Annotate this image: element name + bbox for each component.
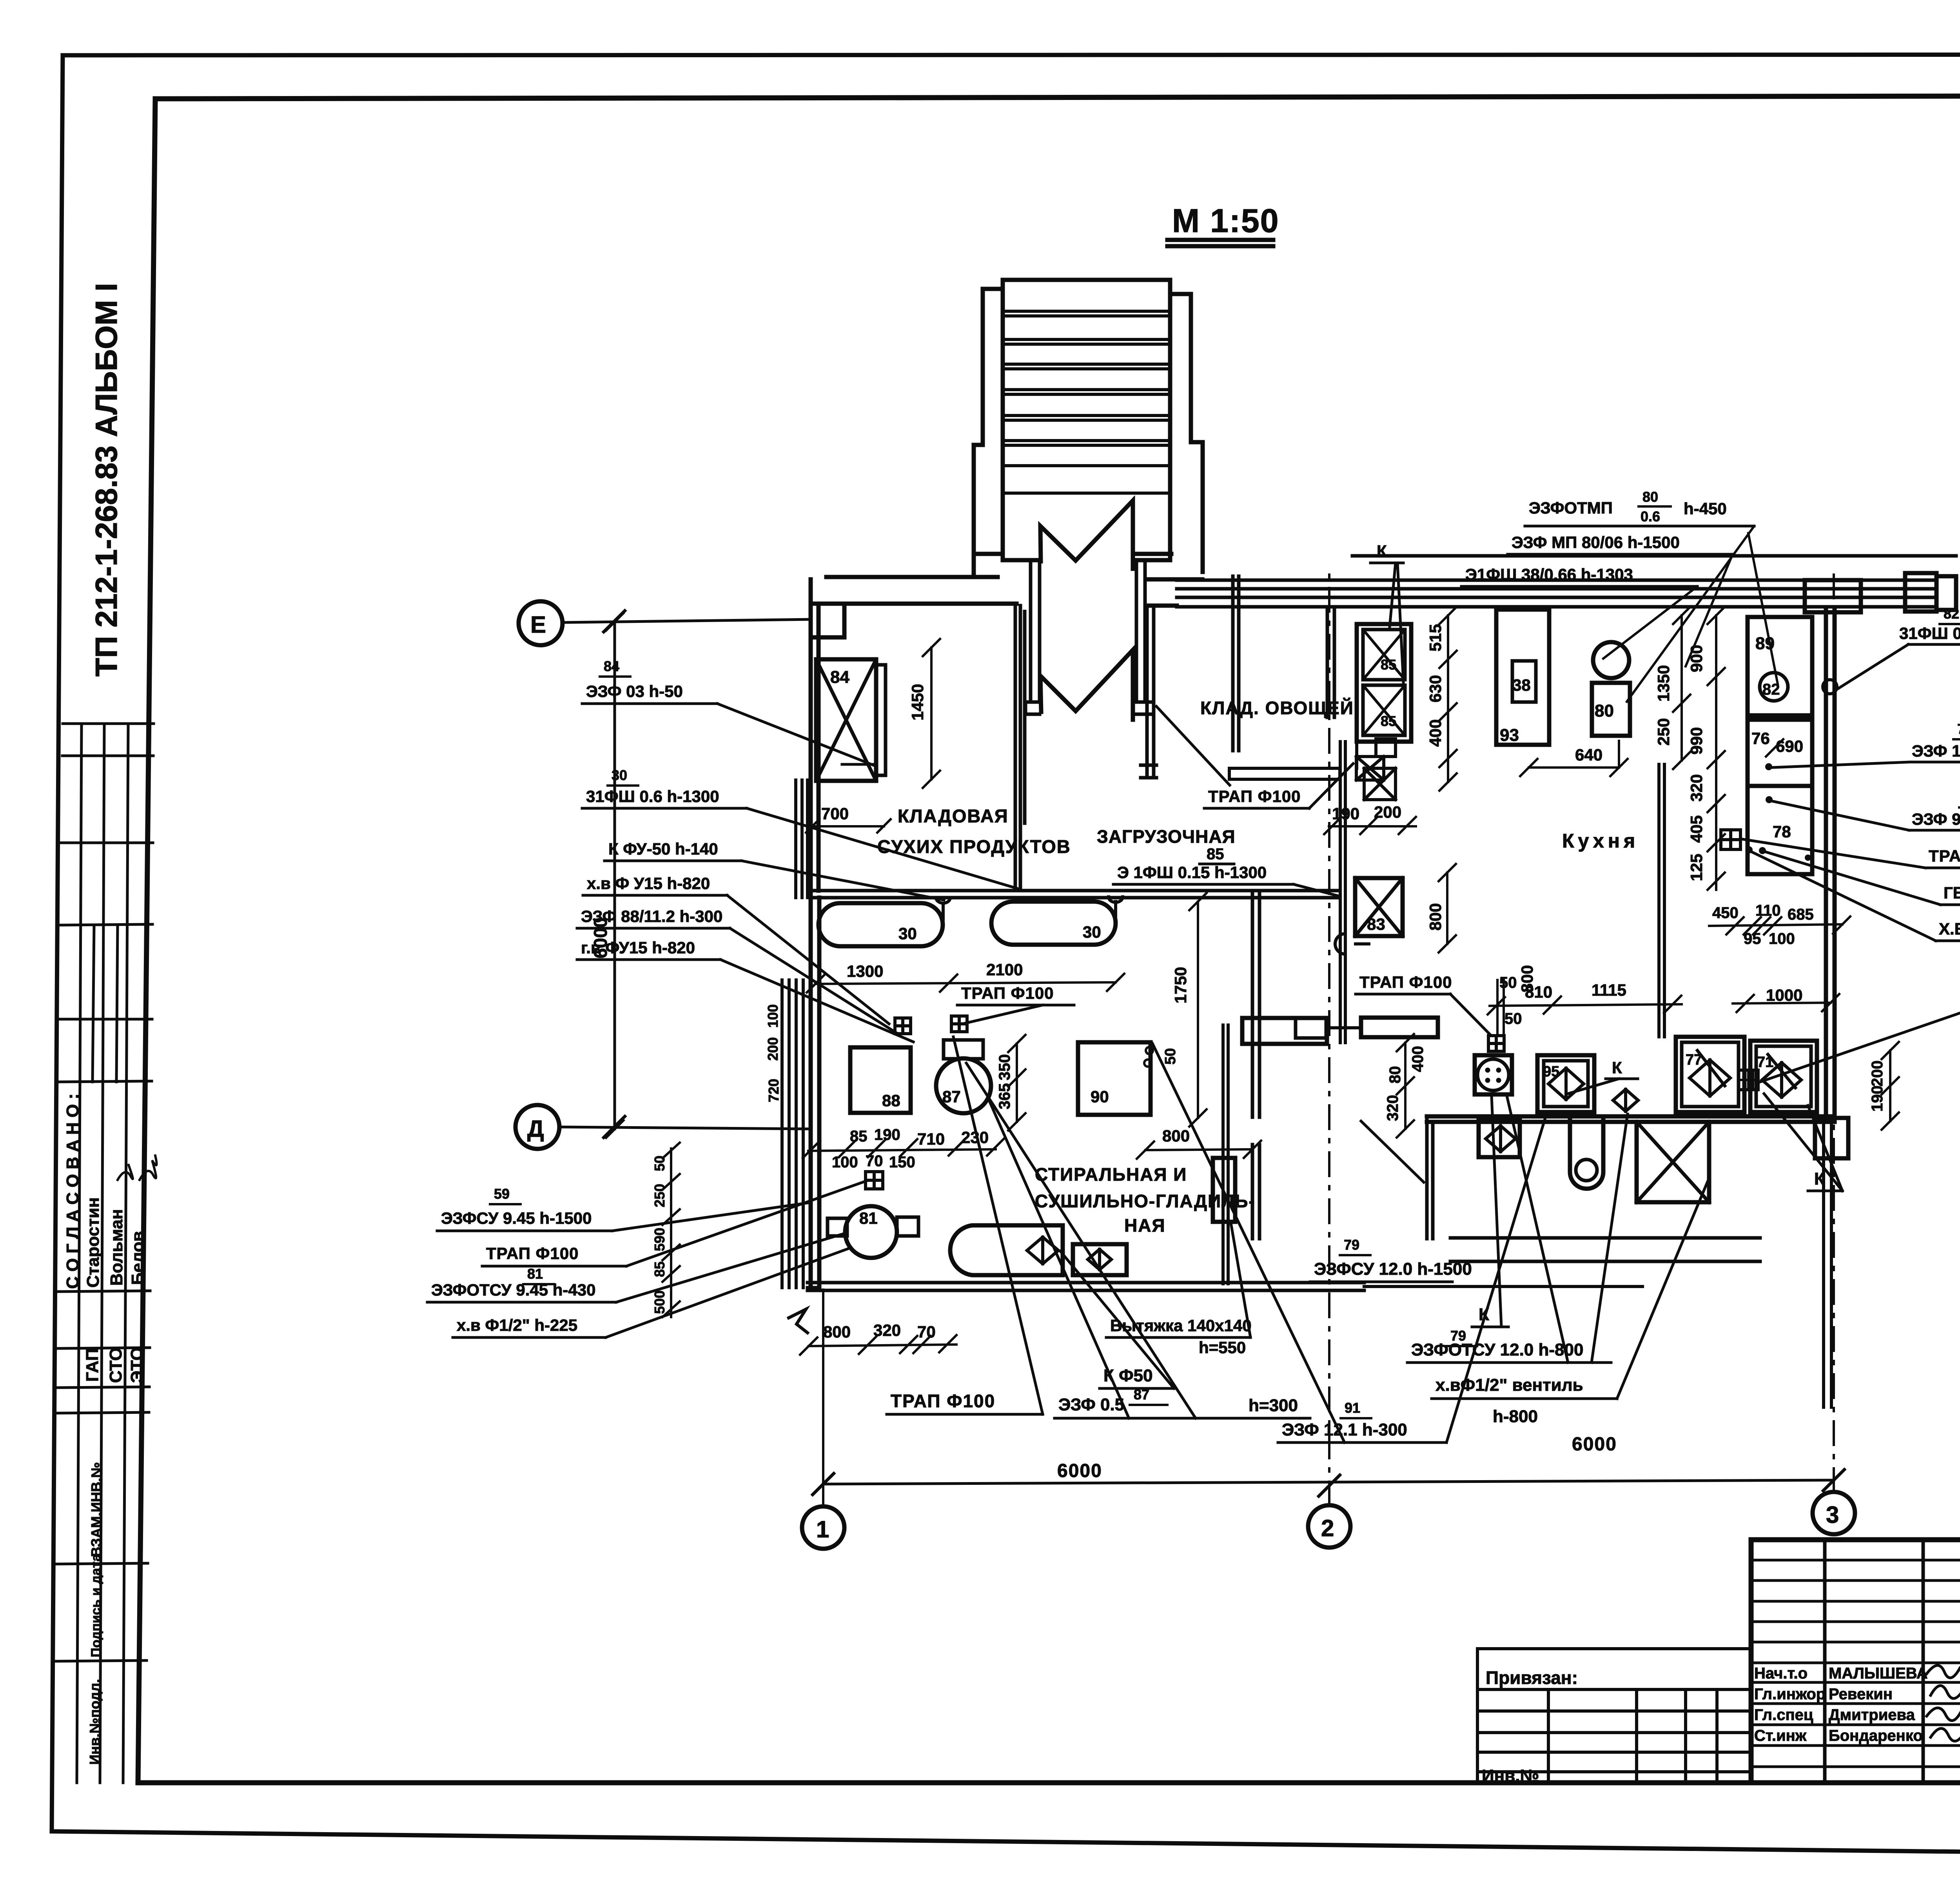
svg-text:400: 400 xyxy=(1409,1046,1426,1072)
bottom axis circles xyxy=(802,1506,844,1549)
drain grates laundry xyxy=(895,1018,911,1034)
svg-text:ЭЗФ 12.1 h-300: ЭЗФ 12.1 h-300 xyxy=(1282,1420,1407,1439)
left margin column lines xyxy=(77,724,128,1783)
washer 88 xyxy=(850,1047,911,1113)
svg-text:СУХИХ ПРОДУКТОВ: СУХИХ ПРОДУКТОВ xyxy=(877,836,1071,857)
svg-text:30: 30 xyxy=(898,924,917,943)
svg-text:ЭЗФСУ 9.45 h-1500: ЭЗФСУ 9.45 h-1500 xyxy=(441,1209,592,1227)
svg-text:80: 80 xyxy=(1642,489,1658,505)
svg-text:810: 810 xyxy=(1525,983,1552,1001)
svg-text:100: 100 xyxy=(765,1004,781,1028)
svg-text:х.в Ф У15 h-820: х.в Ф У15 h-820 xyxy=(587,874,710,893)
svg-text:ЭЗФ 03 h-50: ЭЗФ 03 h-50 xyxy=(586,682,683,700)
svg-text:ЭЗФ 9.45 h-100: ЭЗФ 9.45 h-100 xyxy=(1912,810,1960,828)
east wall xyxy=(1826,610,1835,1116)
staircase outer left wall xyxy=(974,289,1003,574)
svg-text:81: 81 xyxy=(859,1209,878,1227)
svg-text:85: 85 xyxy=(1381,713,1396,729)
taps on baths xyxy=(936,897,1123,919)
svg-text:81: 81 xyxy=(527,1266,543,1282)
svg-text:59: 59 xyxy=(494,1186,510,1202)
right band pillar xyxy=(1805,580,1861,612)
corridor east wall lower xyxy=(1252,1145,1259,1239)
partition right room xyxy=(1659,764,1664,1037)
svg-text:К: К xyxy=(1814,1169,1825,1189)
svg-text:87: 87 xyxy=(942,1087,961,1106)
svg-text:h=550: h=550 xyxy=(1199,1338,1246,1357)
lower sink xyxy=(1479,1120,1520,1157)
svg-text:1: 1 xyxy=(816,1516,829,1542)
north wall right section band xyxy=(1177,556,1956,607)
svg-text:ЗАГРУЗОЧНАЯ: ЗАГРУЗОЧНАЯ xyxy=(1097,826,1236,847)
names sub-table verticals xyxy=(1825,1540,1960,1783)
svg-text:1000: 1000 xyxy=(1766,986,1802,1004)
svg-text:ТРАП Ф100: ТРАП Ф100 xyxy=(1208,787,1301,806)
svg-text:h-450: h-450 xyxy=(1684,499,1727,518)
fixture 84 cupboard with cross xyxy=(816,659,876,781)
svg-text:h=300: h=300 xyxy=(1249,1396,1298,1415)
riser pillar xyxy=(1815,1118,1848,1158)
svg-text:Подпись и дата: Подпись и дата xyxy=(89,1553,103,1657)
sink 95 xyxy=(1537,1055,1594,1112)
svg-text:ТРАП Ф100: ТРАП Ф100 xyxy=(486,1244,579,1263)
left margin table grid xyxy=(55,724,154,1661)
stair break zigzag upper xyxy=(1040,501,1133,569)
names sub-table rows xyxy=(1751,1560,1960,1767)
svg-text:К: К xyxy=(1479,1305,1489,1324)
svg-text:СТИРАЛЬНАЯ И: СТИРАЛЬНАЯ И xyxy=(1035,1164,1187,1185)
door swing corridor xyxy=(1361,1121,1424,1182)
svg-text:х.в Ф1/2" h-225: х.в Ф1/2" h-225 xyxy=(457,1316,577,1334)
svg-text:Э 1ФШ 0.15 h-1300: Э 1ФШ 0.15 h-1300 xyxy=(1117,863,1267,882)
building west wall xyxy=(811,579,819,1288)
svg-text:95: 95 xyxy=(1543,1063,1559,1080)
svg-text:Х.В.Ф1/2" h- 50: Х.В.Ф1/2" h- 50 xyxy=(1939,920,1960,938)
svg-text:800: 800 xyxy=(823,1323,851,1341)
svg-text:125: 125 xyxy=(1687,854,1706,881)
svg-text:Кухня: Кухня xyxy=(1562,830,1639,852)
svg-text:70: 70 xyxy=(866,1152,883,1170)
shower tray 71 xyxy=(1750,1041,1817,1112)
wall break mark xyxy=(789,1309,808,1333)
placeholder groups xyxy=(55,283,157,1783)
west wall pillar xyxy=(811,604,844,637)
unit 89 xyxy=(1748,617,1812,715)
svg-text:87: 87 xyxy=(1134,1386,1149,1403)
svg-text:ЭТО: ЭТО xyxy=(127,1347,147,1383)
svg-text:СУШИЛЬНО-ГЛАДИЛЬ-: СУШИЛЬНО-ГЛАДИЛЬ- xyxy=(1035,1191,1256,1211)
svg-text:СТО: СТО xyxy=(106,1347,125,1383)
svg-text:190: 190 xyxy=(1869,1085,1886,1112)
svg-text:2: 2 xyxy=(1321,1515,1334,1541)
svg-text:ТП 212-1-268.83 АЛЬБОМ I: ТП 212-1-268.83 АЛЬБОМ I xyxy=(89,283,123,677)
svg-text:80: 80 xyxy=(1595,701,1614,720)
svg-text:М 1:50: М 1:50 xyxy=(1172,202,1279,239)
svg-text:Д: Д xyxy=(527,1116,544,1142)
svg-text:405: 405 xyxy=(1687,815,1706,843)
svg-text:3: 3 xyxy=(1826,1502,1839,1528)
sanitary west wall xyxy=(1427,1116,1433,1239)
washbasin sanitary xyxy=(1475,1055,1512,1094)
svg-text:ВЗАМ.ИНВ.№: ВЗАМ.ИНВ.№ xyxy=(88,1462,104,1557)
svg-text:200: 200 xyxy=(765,1037,781,1061)
sink block top kitchen xyxy=(1357,624,1411,742)
north wall right of stair xyxy=(1136,554,1202,606)
svg-text:76: 76 xyxy=(1957,721,1960,737)
svg-text:Гл.инжор: Гл.инжор xyxy=(1754,1686,1826,1703)
svg-text:ЭЗФОТСУ 12.0 h-800: ЭЗФОТСУ 12.0 h-800 xyxy=(1411,1340,1583,1359)
toilet xyxy=(1570,1120,1603,1189)
svg-text:6000: 6000 xyxy=(1057,1461,1102,1481)
main bottom dimension line xyxy=(823,1480,1834,1484)
svg-text:ЭЗФ 88/11.2 h-300: ЭЗФ 88/11.2 h-300 xyxy=(581,907,722,925)
svg-text:82: 82 xyxy=(1762,681,1780,698)
signature squiggles xyxy=(118,1165,133,1180)
title block outline xyxy=(1751,1540,1960,1783)
left extension box xyxy=(1477,1649,1751,1783)
west wall vent shafts xyxy=(782,780,808,1288)
svg-text:100: 100 xyxy=(832,1154,858,1171)
svg-text:82: 82 xyxy=(1944,606,1959,622)
svg-text:88: 88 xyxy=(882,1091,900,1110)
bath 30 left xyxy=(818,903,943,946)
svg-text:990: 990 xyxy=(1687,727,1706,755)
svg-text:ТРАП Ф100: ТРАП Ф100 xyxy=(1929,847,1960,865)
svg-text:630: 630 xyxy=(1426,675,1445,702)
svg-text:150: 150 xyxy=(889,1154,915,1171)
svg-text:Нач.т.о: Нач.т.о xyxy=(1754,1665,1808,1682)
svg-text:800: 800 xyxy=(1162,1127,1190,1145)
svg-text:200: 200 xyxy=(1869,1060,1886,1087)
svg-text:450: 450 xyxy=(1712,904,1739,922)
kitchen partition foot xyxy=(1229,768,1340,779)
vertical dim line E-D xyxy=(606,613,623,1138)
svg-text:31ФШ 03 h-1300: 31ФШ 03 h-1300 xyxy=(1899,624,1960,642)
svg-text:350: 350 xyxy=(996,1054,1013,1080)
svg-text:Ст.инж: Ст.инж xyxy=(1754,1727,1807,1744)
svg-text:КЛАДОВАЯ: КЛАДОВАЯ xyxy=(898,806,1009,826)
svg-text:78: 78 xyxy=(1773,822,1791,841)
svg-text:ГАП: ГАП xyxy=(83,1348,102,1382)
sanitary block lower wall xyxy=(1450,1238,1760,1261)
door swing loading to vegetable xyxy=(1156,706,1230,785)
svg-text:Белов: Белов xyxy=(128,1231,147,1285)
svg-text:190: 190 xyxy=(874,1126,900,1143)
axis circle E xyxy=(519,601,563,645)
svg-text:1300: 1300 xyxy=(847,962,883,980)
corridor east wall upper xyxy=(1252,891,1259,1117)
vent pipe south xyxy=(1364,1285,1642,1288)
svg-text:Е: Е xyxy=(530,611,546,638)
valve box laundry xyxy=(1073,1244,1127,1275)
loading room east wall xyxy=(1233,576,1239,751)
svg-text:1450: 1450 xyxy=(908,684,927,720)
svg-text:h-800: h-800 xyxy=(1493,1407,1538,1426)
svg-text:85: 85 xyxy=(1381,657,1396,673)
laundry south wall xyxy=(808,1283,1364,1290)
svg-text:Э1ФШ 38/0.66 h-1303: Э1ФШ 38/0.66 h-1303 xyxy=(1465,565,1633,584)
svg-text:6000: 6000 xyxy=(1572,1434,1617,1455)
svg-text:30: 30 xyxy=(612,767,627,783)
svg-text:71: 71 xyxy=(1757,1054,1773,1071)
north wall around stair left xyxy=(811,554,1016,604)
svg-text:50: 50 xyxy=(1504,1010,1522,1027)
vestibule left jamb xyxy=(1025,563,1040,714)
svg-text:1350: 1350 xyxy=(1654,665,1673,702)
axis circle D xyxy=(515,1105,559,1149)
svg-text:ЭЗФСУ 12.0 h-1500: ЭЗФСУ 12.0 h-1500 xyxy=(1314,1259,1472,1279)
svg-text:77: 77 xyxy=(1686,1052,1702,1068)
svg-text:МАЛЫШЕВА: МАЛЫШЕВА xyxy=(1829,1665,1928,1682)
svg-text:1750: 1750 xyxy=(1171,967,1190,1003)
hatch box 83 xyxy=(1355,878,1403,936)
svg-text:800: 800 xyxy=(1426,903,1445,931)
svg-text:84: 84 xyxy=(604,658,619,674)
shower tray 77 xyxy=(1676,1037,1744,1112)
svg-text:ТРАП Ф100: ТРАП Ф100 xyxy=(961,984,1054,1002)
leaders from kitchen labels xyxy=(1603,526,1778,702)
svg-text:80: 80 xyxy=(1387,1066,1404,1084)
staircase box xyxy=(1003,280,1170,560)
centrifuge 81 xyxy=(845,1206,897,1258)
svg-text:НАЯ: НАЯ xyxy=(1124,1215,1166,1236)
svg-text:320: 320 xyxy=(1384,1095,1401,1121)
bath with cross xyxy=(1637,1122,1709,1202)
svg-text:х.вФ1/2" вентиль: х.вФ1/2" вентиль xyxy=(1436,1375,1583,1395)
kitchen west partition xyxy=(1327,607,1334,717)
svg-text:515: 515 xyxy=(1426,624,1445,651)
svg-text:ЭЗФ 17.04 h- 100: ЭЗФ 17.04 h- 100 xyxy=(1912,742,1960,760)
svg-text:190: 190 xyxy=(1332,804,1359,823)
svg-text:90: 90 xyxy=(1091,1087,1109,1106)
svg-text:Старостин: Старостин xyxy=(83,1197,103,1288)
svg-text:89: 89 xyxy=(1755,634,1775,653)
svg-text:84: 84 xyxy=(830,668,849,687)
svg-text:Бондаренко: Бондаренко xyxy=(1829,1727,1923,1744)
svg-text:С О Г Л А С О В А Н О :: С О Г Л А С О В А Н О : xyxy=(63,1094,82,1289)
svg-text:110: 110 xyxy=(1755,902,1781,919)
svg-text:590: 590 xyxy=(652,1228,668,1251)
svg-text:Гл.спец: Гл.спец xyxy=(1754,1706,1813,1724)
svg-text:Привязан:: Привязан: xyxy=(1486,1668,1578,1688)
svg-text:700: 700 xyxy=(821,804,849,823)
south wall of sanitary block xyxy=(1427,1116,1835,1122)
right band end block xyxy=(1905,573,1936,611)
svg-text:Инв.№подл.: Инв.№подл. xyxy=(87,1679,103,1765)
svg-text:ЭЗФОТМП: ЭЗФОТМП xyxy=(1529,499,1613,517)
drain riser lines xyxy=(1824,1122,1831,1407)
stair treads xyxy=(1004,311,1169,493)
svg-text:200: 200 xyxy=(1374,803,1401,821)
signatures xyxy=(1927,1666,1960,1741)
drain grate between trays xyxy=(1739,1070,1758,1090)
west wall of loading room xyxy=(1141,606,1156,778)
svg-text:900: 900 xyxy=(1687,645,1706,672)
svg-text:ТРАП Ф100: ТРАП Ф100 xyxy=(891,1391,995,1411)
svg-text:ТРАП Ф100: ТРАП Ф100 xyxy=(1359,973,1452,991)
svg-text:250: 250 xyxy=(1654,718,1673,746)
svg-text:365: 365 xyxy=(996,1083,1013,1109)
svg-text:30: 30 xyxy=(1083,923,1101,941)
svg-text:91: 91 xyxy=(1345,1400,1360,1416)
svg-text:85: 85 xyxy=(652,1261,668,1277)
svg-text:70: 70 xyxy=(917,1323,936,1341)
svg-text:2100: 2100 xyxy=(986,960,1023,979)
axis E line xyxy=(563,619,811,622)
svg-text:0.6: 0.6 xyxy=(1641,508,1660,524)
west wall of storeroom corridor xyxy=(1015,606,1025,891)
svg-text:400: 400 xyxy=(1426,719,1445,747)
duct horizontal xyxy=(1242,1018,1327,1044)
vestibule right jamb xyxy=(1136,563,1151,714)
wall valve xyxy=(1613,1089,1638,1111)
svg-text:38: 38 xyxy=(1512,676,1531,694)
svg-text:К: К xyxy=(1377,542,1387,560)
svg-text:685: 685 xyxy=(1788,906,1814,923)
kitchen table 93 xyxy=(1496,610,1549,745)
drain grate kitchen xyxy=(1721,830,1740,849)
wall bump xyxy=(1335,934,1369,954)
drain grate sanitary xyxy=(1488,1036,1504,1051)
svg-text:100: 100 xyxy=(1769,930,1795,947)
svg-text:93: 93 xyxy=(1500,726,1519,745)
trough bath xyxy=(950,1225,1063,1275)
svg-text:ЭЗФ 0.5: ЭЗФ 0.5 xyxy=(1058,1395,1124,1414)
svg-text:Ревекин: Ревекин xyxy=(1829,1686,1893,1703)
table 90 xyxy=(1146,1047,1153,1054)
boiler 80 xyxy=(1593,642,1629,678)
bath 30 right xyxy=(991,902,1116,945)
small drain steps below sinks xyxy=(1357,742,1396,800)
svg-text:Дмитриева: Дмитриева xyxy=(1829,1706,1915,1724)
stair break zigzag lower xyxy=(1040,650,1133,720)
svg-text:ГВ Ф1/2" h- 50: ГВ Ф1/2" h- 50 xyxy=(1944,884,1960,902)
svg-text:К ФУ-50 h-140: К ФУ-50 h-140 xyxy=(608,840,718,858)
svg-text:К: К xyxy=(1612,1058,1622,1077)
svg-text:50: 50 xyxy=(1499,974,1517,991)
svg-text:ЭЗФ МП 80/06 h-1500: ЭЗФ МП 80/06 h-1500 xyxy=(1512,533,1680,552)
svg-text:720: 720 xyxy=(766,1079,782,1102)
svg-text:г.в ФУ15 h-820: г.в ФУ15 h-820 xyxy=(581,938,695,957)
svg-text:Вольман: Вольман xyxy=(107,1209,126,1286)
svg-text:31ФШ 0.6 h-1300: 31ФШ 0.6 h-1300 xyxy=(586,787,719,806)
axis D line xyxy=(559,1127,811,1129)
svg-text:Вытяжка 140х140: Вытяжка 140х140 xyxy=(1110,1316,1252,1335)
svg-text:76: 76 xyxy=(1751,729,1770,748)
unit 78 xyxy=(1748,786,1812,874)
svg-text:КЛАД. ОВОЩЕЙ: КЛАД. ОВОЩЕЙ xyxy=(1200,698,1354,718)
svg-text:50: 50 xyxy=(652,1156,668,1171)
svg-text:320: 320 xyxy=(1687,774,1706,802)
mid horizontal wall xyxy=(811,891,1340,898)
unit 76 xyxy=(1748,720,1812,786)
exhaust duct riser xyxy=(1223,1025,1228,1284)
washer 87 xyxy=(936,1058,991,1113)
staircase outer right wall xyxy=(1170,294,1203,572)
svg-text:85: 85 xyxy=(1207,846,1224,863)
svg-text:710: 710 xyxy=(917,1130,945,1148)
svg-text:83: 83 xyxy=(1367,915,1385,933)
svg-text:1115: 1115 xyxy=(1592,981,1626,999)
svg-text:Инв.№: Инв.№ xyxy=(1482,1766,1539,1785)
svg-text:ЭЗФОТСУ 9.45 h-430: ЭЗФОТСУ 9.45 h-430 xyxy=(431,1281,595,1299)
svg-text:500: 500 xyxy=(652,1290,668,1314)
svg-text:640: 640 xyxy=(1575,746,1602,764)
svg-text:79: 79 xyxy=(1344,1237,1359,1253)
svg-text:690: 690 xyxy=(1776,737,1803,755)
svg-text:50: 50 xyxy=(1162,1048,1179,1065)
